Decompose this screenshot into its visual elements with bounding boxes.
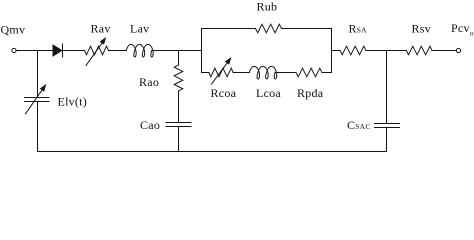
- resistor Rub: [256, 24, 282, 33]
- inductor Lav: [126, 44, 153, 57]
- wire Cao to bottom rail: [178, 127, 180, 152]
- wire Lcoa to Rpda: [275, 72, 296, 74]
- wire Rao branch vertical top: [178, 51, 180, 66]
- svg-text:Rsv: Rsv: [412, 22, 431, 36]
- resistor Rcoa (variable): [209, 68, 233, 77]
- svg-text:Rub: Rub: [257, 0, 278, 14]
- svg-text:RSA: RSA: [349, 22, 368, 36]
- wire Rav to Lav: [109, 50, 127, 52]
- resistor Rsv: [406, 46, 432, 55]
- wire box to RSA: [332, 50, 341, 52]
- svg-text:Lcoa: Lcoa: [256, 86, 281, 100]
- svg-text:Qmv: Qmv: [1, 23, 26, 37]
- wire Rpda to box right edge: [322, 72, 332, 74]
- wire bottom rail: [38, 151, 387, 153]
- wire RSA to Rsv (through CSAC node): [366, 50, 406, 52]
- wire Rao to Cao: [178, 91, 180, 123]
- svg-text:Rao: Rao: [139, 75, 159, 89]
- svg-text:Rcoa: Rcoa: [211, 86, 237, 100]
- wire Elv to bottom rail: [37, 102, 39, 152]
- wire CSAC to bottom rail: [386, 128, 388, 152]
- resistor RSA: [340, 46, 366, 55]
- diode D1: [53, 44, 85, 57]
- wire parallel box right edge: [331, 29, 333, 73]
- wire Rsv to output terminal: [432, 50, 456, 52]
- capacitor CSAC: [375, 124, 400, 128]
- resistor Rao: [174, 65, 183, 91]
- wire Rcoa to Lcoa: [233, 72, 249, 74]
- svg-text:Cao: Cao: [140, 118, 160, 132]
- wire parallel box left edge: [201, 29, 203, 73]
- wire box top-left segment: [202, 28, 256, 30]
- wire box top-right segment: [282, 28, 332, 30]
- svg-text:Pcvo: Pcvo: [451, 21, 474, 38]
- svg-text:CSAC: CSAC: [347, 118, 371, 132]
- svg-text:Rpda: Rpda: [297, 86, 324, 100]
- terminal Pcv (output port circle): [456, 48, 460, 52]
- svg-text:Lav: Lav: [130, 22, 149, 36]
- inductor Lcoa: [249, 66, 276, 79]
- resistor Rav (variable): [85, 46, 109, 55]
- arrow of variable capacitor Elv(t): [26, 84, 47, 114]
- wire box bottom-left lead: [202, 72, 209, 74]
- svg-text:Rav: Rav: [91, 22, 111, 36]
- wire CSAC branch vertical top: [386, 51, 388, 124]
- capacitor Cao: [166, 123, 191, 127]
- arrow of variable resistor Rcoa: [212, 57, 232, 84]
- resistor Rpda: [296, 68, 322, 77]
- wire input terminal to diode: [16, 50, 53, 52]
- wire Lav to parallel box (through node at Rao branch): [152, 50, 202, 52]
- arrow of variable resistor Rav: [86, 37, 106, 66]
- svg-text:Elv(t): Elv(t): [58, 95, 88, 109]
- capacitor Elv(t) plates (variable): [25, 98, 50, 102]
- wire left branch vertical (node to Elv top plate): [37, 51, 39, 98]
- terminal Qmv (input port circle): [12, 48, 16, 52]
